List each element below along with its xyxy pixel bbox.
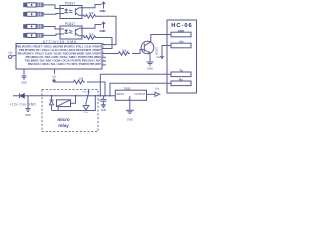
svg-text:GND: GND bbox=[21, 81, 27, 85]
svg-text:GND: GND bbox=[101, 109, 107, 112]
svg-text:INPUT: INPUT bbox=[117, 92, 125, 96]
svg-text:10k: 10k bbox=[79, 77, 84, 81]
svg-text:Tx: Tx bbox=[179, 69, 183, 73]
svg-text:+5v: +5v bbox=[8, 51, 13, 55]
svg-text:+12v Con GND: +12v Con GND bbox=[10, 102, 37, 106]
svg-text:GND: GND bbox=[127, 117, 133, 121]
svg-text:Rx: Rx bbox=[179, 78, 183, 82]
svg-text:GND: GND bbox=[100, 9, 106, 13]
svg-text:+5v: +5v bbox=[179, 40, 184, 44]
svg-text:+5v: +5v bbox=[156, 55, 161, 59]
svg-text:6: 6 bbox=[103, 60, 104, 62]
svg-text:7: 7 bbox=[103, 63, 104, 65]
svg-text:10k: 10k bbox=[122, 48, 127, 52]
svg-text:GND: GND bbox=[100, 29, 106, 33]
svg-text:+5v: +5v bbox=[155, 87, 160, 91]
svg-text:PB2 (SCK / USCK / SCL / ADC1 /: PB2 (SCK / USCK / SCL / ADC1 / T0 / INT0… bbox=[28, 63, 102, 66]
svg-text:OUTPUT: OUTPUT bbox=[135, 92, 146, 96]
svg-text:GND: GND bbox=[147, 67, 153, 71]
svg-text:BC547: BC547 bbox=[155, 47, 159, 55]
svg-text:VT1.2 12: VT1.2 12 bbox=[82, 91, 91, 93]
svg-text:2: 2 bbox=[103, 47, 104, 49]
svg-text:relay: relay bbox=[58, 123, 69, 128]
svg-text:10k: 10k bbox=[89, 11, 94, 15]
svg-text:10k: 10k bbox=[89, 33, 94, 37]
svg-text:micro: micro bbox=[57, 117, 70, 122]
svg-text:5: 5 bbox=[103, 56, 104, 58]
svg-text:GND: GND bbox=[25, 113, 31, 117]
svg-text:1: 1 bbox=[103, 43, 104, 45]
svg-text:+5v: +5v bbox=[52, 74, 57, 78]
svg-text:GND: GND bbox=[178, 29, 184, 33]
